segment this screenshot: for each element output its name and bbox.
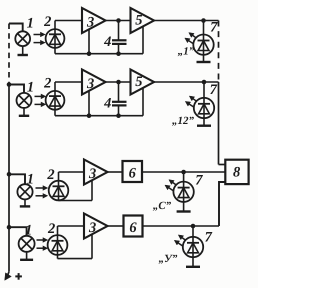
svg-text:3: 3 [86,76,94,92]
svg-text:„12”: „12” [172,115,195,127]
svg-text:„1”: „1” [178,46,195,58]
svg-text:1: 1 [27,15,34,31]
svg-text:3: 3 [88,220,96,236]
svg-text:3: 3 [86,15,94,31]
svg-text:4: 4 [103,34,111,50]
svg-text:7: 7 [210,82,218,98]
svg-text:2: 2 [46,167,54,183]
svg-text:7: 7 [205,230,213,246]
svg-text:3: 3 [88,166,96,182]
svg-text:4: 4 [103,95,111,111]
svg-text:6: 6 [129,166,137,182]
svg-text:„C”: „C” [153,200,172,212]
svg-text:8: 8 [233,165,241,181]
svg-text:7: 7 [195,173,203,189]
svg-text:5: 5 [135,74,142,90]
svg-text:7: 7 [210,19,218,35]
svg-text:5: 5 [135,13,142,29]
svg-text:2: 2 [43,76,51,92]
svg-text:1: 1 [27,171,34,187]
svg-text:1: 1 [27,80,34,96]
svg-text:2: 2 [43,14,51,30]
svg-text:6: 6 [129,220,137,236]
svg-text:1: 1 [25,222,32,238]
svg-text:„У”: „У” [159,253,178,265]
